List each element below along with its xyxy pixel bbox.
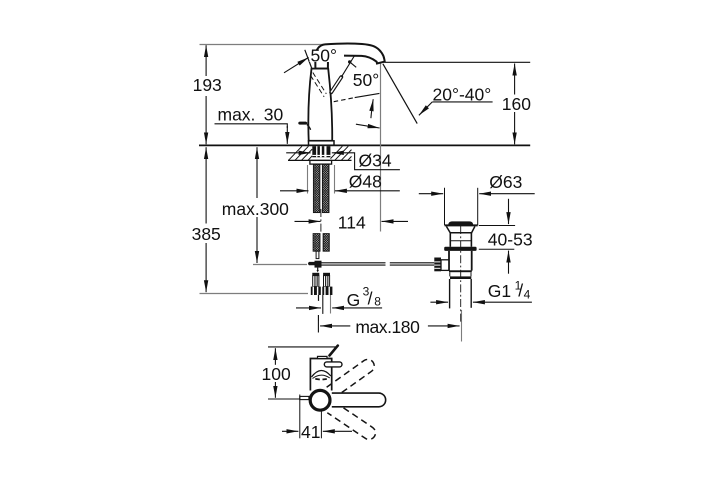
faucet body (tapered) — [308, 69, 332, 141]
spout outline — [315, 44, 384, 69]
lever (plan) — [324, 362, 342, 367]
lower dashed swivel position — [327, 402, 378, 442]
right tail pipe — [322, 295, 324, 314]
label 20-40 with leader — [419, 84, 493, 115]
pull rod knob (front view) — [298, 122, 307, 125]
svg-text:Ø48: Ø48 — [349, 172, 382, 192]
lever handle — [331, 77, 341, 92]
hose-end reference line (385 bottom) — [200, 293, 309, 295]
flexible hose braids — [313, 234, 320, 252]
swivel bearing circle — [310, 390, 330, 410]
waste centerline — [460, 226, 462, 322]
faucet centerline — [320, 132, 322, 145]
spout tip reference line (160 top) — [384, 61, 530, 63]
svg-text:100: 100 — [262, 364, 291, 384]
waste lower body — [448, 251, 450, 271]
angle ref line 50-1 — [305, 50, 312, 70]
counter hatching left — [289, 146, 313, 160]
solid spout (plan) — [332, 393, 386, 407]
left tail centerline — [318, 295, 320, 301]
svg-text:160: 160 — [502, 94, 531, 114]
lever axis extension — [342, 56, 355, 77]
upper dashed swivel position — [327, 357, 377, 398]
svg-text:G1: G1 — [488, 281, 511, 301]
svg-text:Ø63: Ø63 — [489, 172, 522, 192]
Ø48 extension lines — [307, 165, 309, 194]
rod stub tube — [316, 251, 319, 258]
svg-text:max. 30: max. 30 — [218, 104, 284, 124]
svg-text:4: 4 — [524, 288, 531, 302]
coupler pin — [317, 268, 319, 271]
rod linkage block — [441, 260, 449, 271]
spout dome arcs — [312, 370, 331, 377]
svg-text:50°: 50° — [311, 46, 337, 66]
leader to 50-2 — [350, 62, 357, 67]
countertop deck line — [199, 144, 530, 146]
dimension 41 — [282, 422, 352, 442]
cartridge cap bump — [318, 356, 328, 358]
dimension max.180 — [318, 310, 461, 342]
rod knurled nut — [434, 258, 441, 272]
waste flange — [445, 224, 478, 226]
spout projection extension line — [380, 63, 382, 232]
rear pivot stub — [300, 396, 309, 399]
dimension 385 — [192, 147, 221, 292]
40-53 reference lines — [479, 225, 515, 227]
threaded shank columns — [313, 164, 320, 213]
pop-up rod reference line (max.300 bottom) — [253, 264, 307, 266]
100 top reference line — [268, 346, 336, 348]
svg-text:Ø34: Ø34 — [359, 151, 392, 171]
pop-up rod (horizontal) — [322, 263, 435, 265]
dimension G1 1/4 — [430, 279, 532, 303]
svg-text:50°: 50° — [353, 70, 379, 90]
waste tailpipe G1 1/4 — [449, 279, 451, 308]
top reference line (spout height 193) — [200, 44, 327, 46]
mounting washer — [310, 160, 332, 164]
counter hatching right — [331, 146, 352, 160]
svg-text:385: 385 — [192, 224, 221, 244]
waste knob — [448, 221, 473, 225]
G3/8 fitting left — [311, 273, 321, 295]
dimension Ø48 — [280, 172, 400, 192]
svg-text:/: / — [518, 281, 523, 301]
hidden channel dashes in body — [313, 73, 327, 94]
svg-text:41: 41 — [301, 422, 320, 442]
counter bottom line — [288, 159, 352, 161]
dimension 40-53 — [488, 199, 533, 274]
svg-text:max.180: max.180 — [355, 317, 420, 337]
svg-text:8: 8 — [374, 295, 381, 309]
base plate — [309, 141, 335, 145]
water stream diagonal — [383, 64, 417, 124]
dimension 100 — [262, 348, 291, 398]
100 bottom reference line — [268, 398, 300, 400]
pull rod (plan) — [330, 346, 338, 356]
dimension max.300 — [222, 147, 289, 263]
label 50-1 — [310, 50, 345, 63]
plan body — [310, 359, 331, 391]
svg-text:114: 114 — [338, 212, 366, 232]
dimension Ø34 — [286, 151, 400, 171]
rod left cap — [308, 262, 315, 265]
svg-text:193: 193 — [193, 75, 222, 95]
G3/8 fitting right — [322, 273, 332, 295]
arrow for 50-1 — [284, 57, 309, 72]
label max. 30 with leader — [215, 104, 288, 143]
dimension 160 — [502, 64, 531, 145]
svg-text:max.300: max.300 — [222, 199, 289, 219]
pivot dot — [348, 60, 351, 63]
dimension Ø63 — [419, 172, 535, 194]
41 extension lines — [299, 395, 301, 439]
right arrow of angle — [356, 124, 380, 128]
svg-text:G: G — [347, 290, 361, 310]
svg-text:40-53: 40-53 — [488, 229, 533, 249]
threaded shank in counter — [312, 146, 330, 157]
waste collar ring — [444, 247, 476, 251]
waste upper body — [449, 233, 451, 247]
dimension G3/8 — [296, 285, 382, 311]
Ø63 extension lines — [444, 188, 446, 225]
dimension 114 (spout projection) — [295, 212, 409, 232]
up arrow of angle — [371, 99, 373, 118]
stream reference line (dashed+solid) — [334, 98, 355, 102]
dimension 193 — [193, 45, 222, 144]
neck joint line — [312, 68, 329, 70]
svg-text:/: / — [368, 289, 373, 309]
rod coupler block — [315, 261, 322, 268]
